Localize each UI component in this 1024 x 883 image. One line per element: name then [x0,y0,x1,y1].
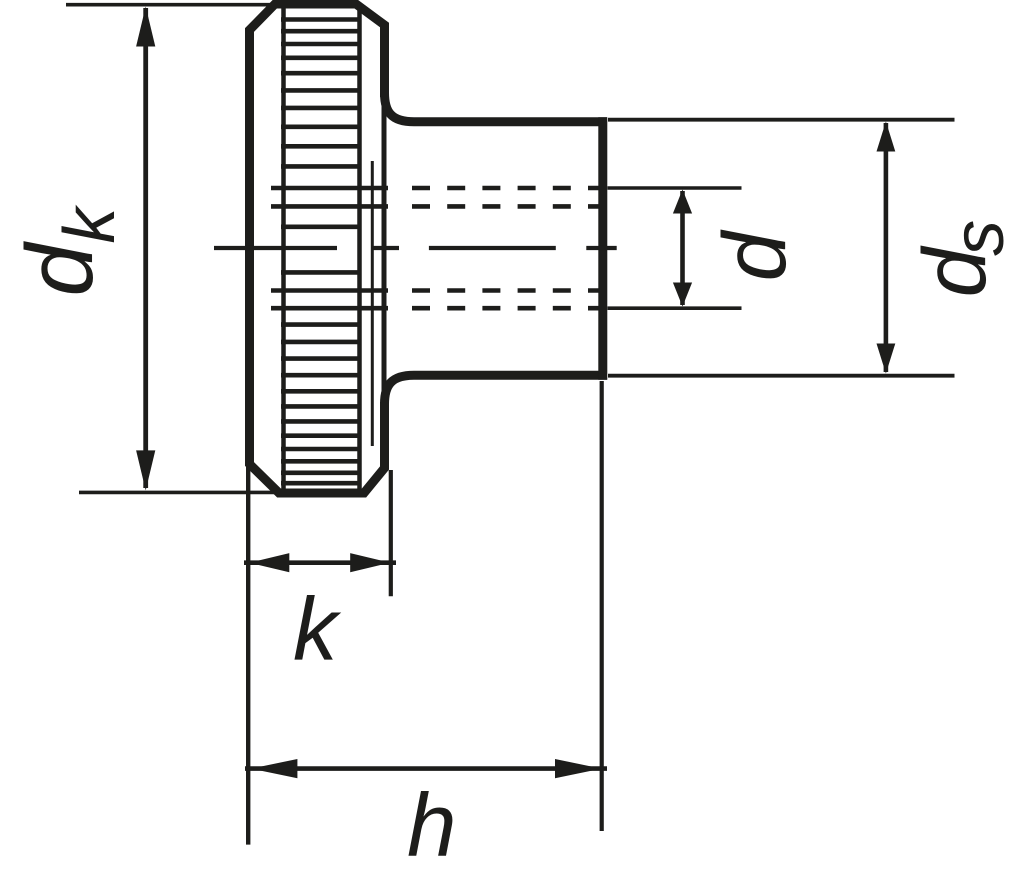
d dimension line [680,191,685,305]
thread line D solid across head [271,306,388,311]
ds dimension line [884,123,889,372]
k/h left extension line [246,466,250,845]
k dimension line [244,560,396,565]
d lower extension line [608,306,742,310]
boss right edge [598,117,607,379]
k right arrow [350,553,390,572]
knurled head outline [250,4,385,493]
ds bottom extension line [608,374,955,378]
dashed thread line B [412,204,600,209]
svg-text:ds: ds [904,220,1019,298]
k right extension line [389,470,393,596]
dk top extension line [66,3,272,7]
dk top arrow [136,7,155,47]
dashed thread line A [412,186,600,191]
dk bottom extension line [79,491,277,495]
svg-text:dk: dk [7,204,130,297]
k left arrow [249,553,289,572]
boss top outline with fillet [385,93,608,122]
ds bottom arrow [877,344,896,374]
svg-text:h: h [407,775,457,875]
dk bottom arrow [136,450,155,490]
ds top extension line [608,118,955,122]
h right extension line [600,381,604,831]
svg-text:d: d [704,229,804,281]
svg-text:k: k [293,579,342,679]
thread line C solid across head [271,288,388,293]
dk dimension line [143,8,148,488]
centerline [214,246,617,250]
d top arrow [673,190,692,214]
knurl left boundary [281,6,286,490]
boss bottom outline with fillet [385,375,608,404]
knurl lines [281,20,361,484]
thread line A solid across head [271,186,388,191]
thread line B solid across head [271,204,388,209]
knurl right boundary [357,6,362,490]
ds top arrow [877,122,896,152]
head right face edge thin segment [382,92,387,406]
d bottom arrow [673,283,692,307]
dashed thread line D [412,306,600,311]
h left arrow [251,759,298,778]
thin edge line right of knurl [371,161,374,446]
h right arrow [555,759,602,778]
d upper extension line [608,186,742,190]
h dimension line [245,766,607,771]
dashed thread line C [412,288,600,293]
